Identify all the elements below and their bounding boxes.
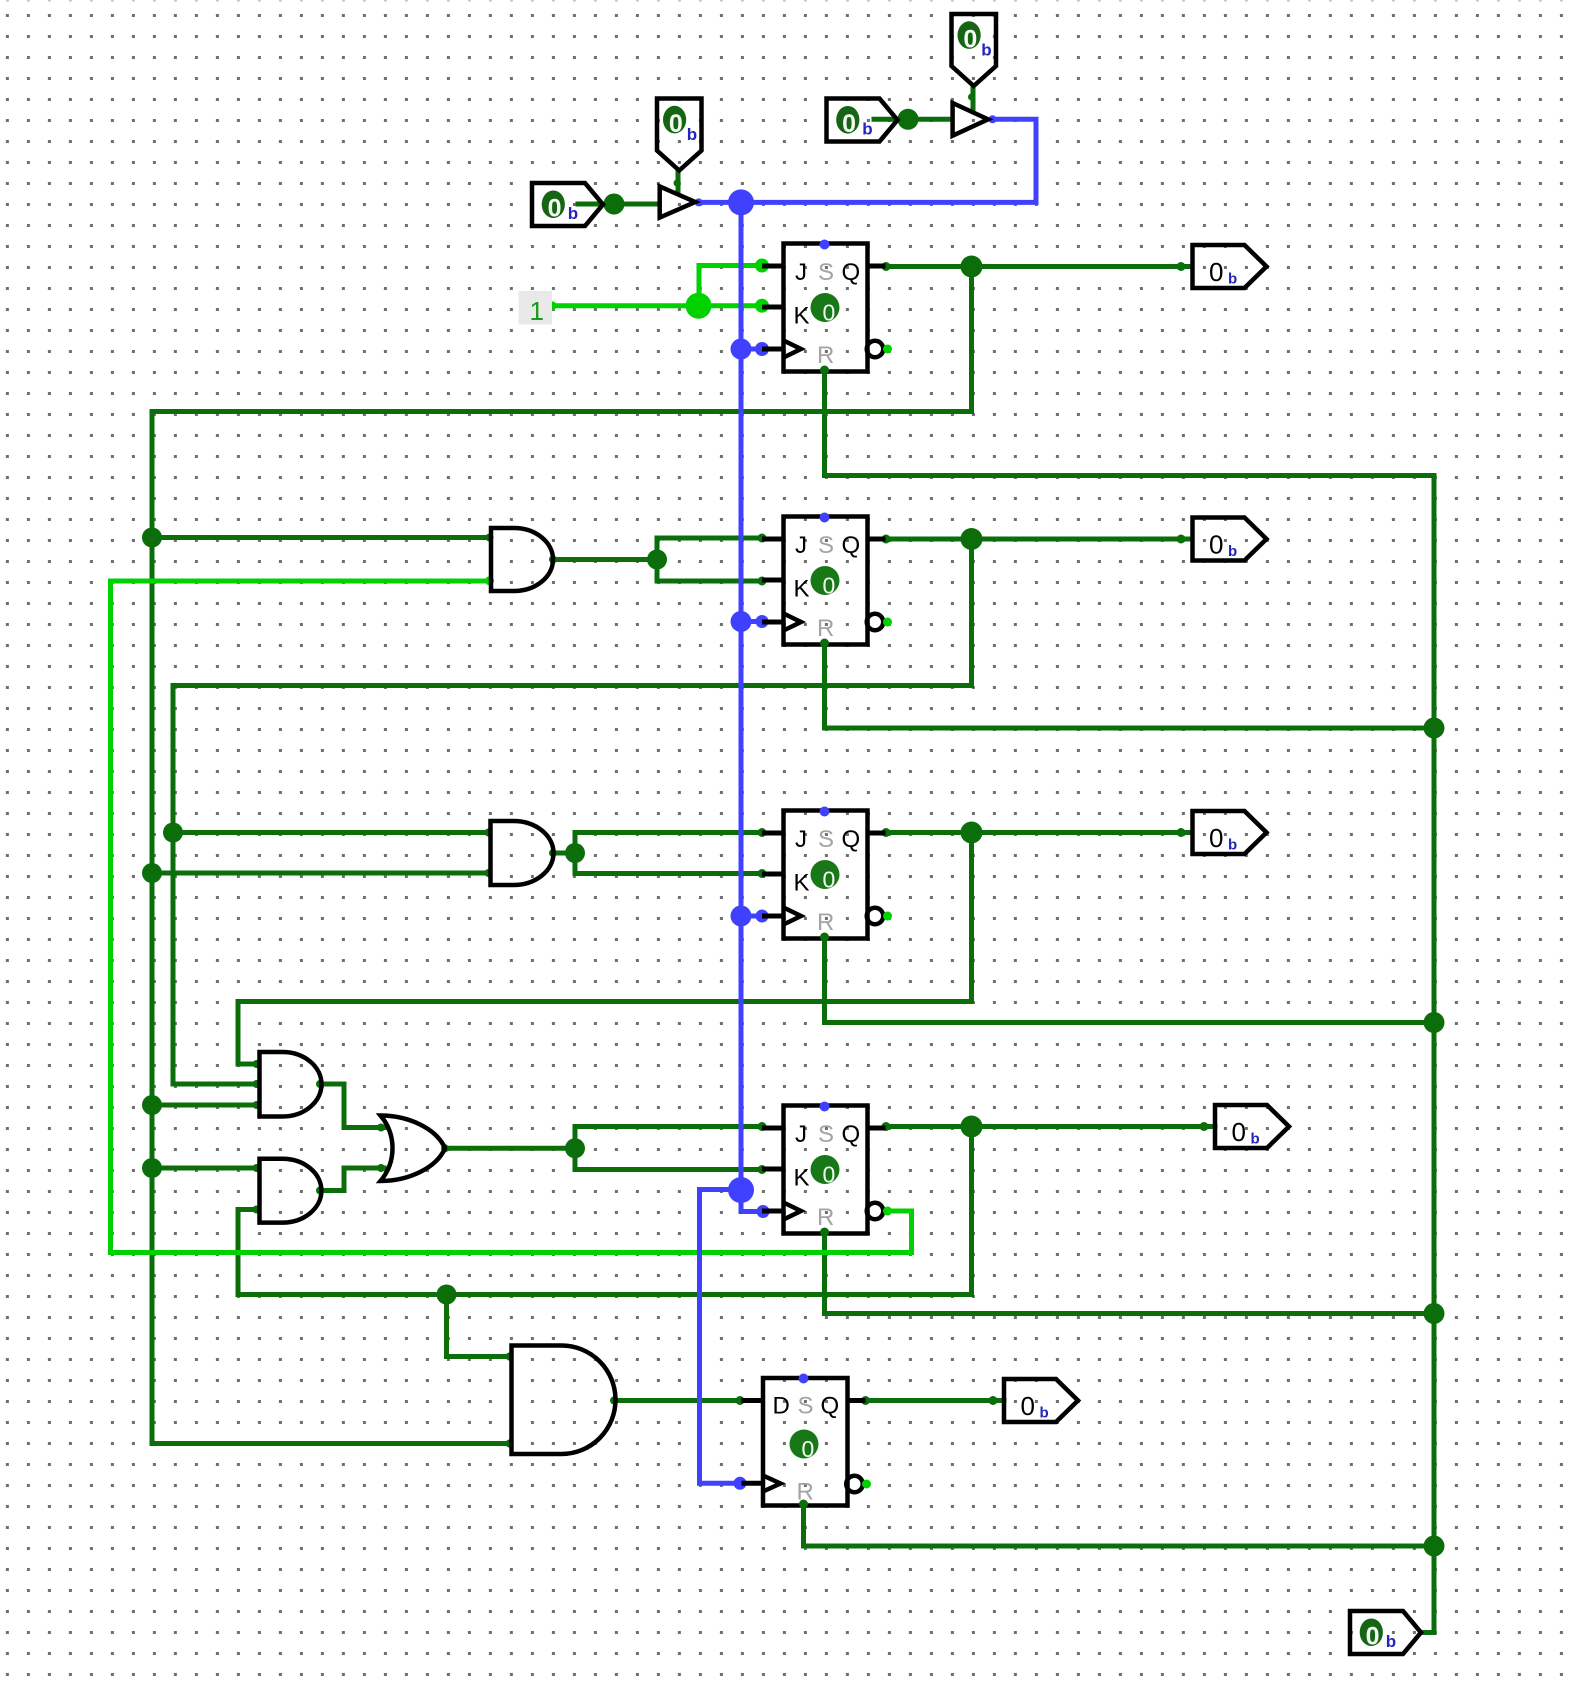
- node junction blue FF1 clock: [731, 339, 752, 360]
- node blue wire end FF2 clock: [756, 615, 769, 628]
- node AND3 input A port: [253, 1060, 261, 1068]
- control input pin I1c (0b) above buffer B1: [657, 99, 702, 171]
- wire blue stub to FF4 clock: [741, 1190, 763, 1212]
- wire FF4 Qbar(1) loop to AND1 bottom input: [111, 581, 912, 1253]
- wire Q2 feedback (down-left-down to AND3 middle input): [173, 539, 972, 1084]
- svg-text:S: S: [798, 1393, 814, 1420]
- wire blue B1 output to B2 output: [699, 119, 1036, 202]
- node DFF Q port: [861, 1396, 870, 1405]
- svg-text:b: b: [1386, 1632, 1396, 1651]
- node O2 input port: [1177, 535, 1186, 544]
- wire blue branch to DFF clock: [700, 1190, 742, 1484]
- flip-flop FF4 (JK): [762, 1102, 892, 1237]
- wire ctrl pin I1c to buffer B1 control: [676, 170, 681, 193]
- wire AND1 out to FF2 K: [657, 560, 762, 582]
- node AND4 output port: [316, 1187, 324, 1195]
- output pin O5 (0b): [1004, 1379, 1078, 1422]
- wire blue clock bus vertical: [739, 202, 744, 1190]
- svg-text:K: K: [794, 1165, 810, 1192]
- wire FF4 R to reset bus: [825, 1234, 1435, 1314]
- node junction input I1: [604, 194, 625, 215]
- svg-text:J: J: [795, 259, 807, 286]
- svg-text:0: 0: [1209, 823, 1223, 853]
- wire Q3 to output pin O3: [886, 830, 1192, 835]
- node O3 input port: [1177, 828, 1186, 837]
- wire AND2 out to FF3 K: [575, 853, 762, 874]
- and-gate AND4: [260, 1159, 322, 1223]
- node junction AND2 out: [565, 843, 585, 863]
- wire constant 1 branch to FF1 J: [699, 266, 762, 306]
- node wire end FF4 K: [758, 1165, 767, 1174]
- wire big AND output to DFF D input: [616, 1398, 740, 1403]
- node junction Q1: [961, 256, 983, 278]
- node OR1 input B port: [377, 1164, 385, 1172]
- output pin O4 (0b): [1215, 1105, 1289, 1148]
- svg-text:Q: Q: [842, 532, 861, 559]
- svg-text:Q: Q: [842, 1121, 861, 1148]
- node OR1 output port: [441, 1144, 449, 1152]
- node junction reset bus/FF2: [1424, 718, 1445, 739]
- svg-text:0: 0: [1232, 1117, 1246, 1147]
- flip-flop FF2 (JK): [762, 513, 892, 648]
- node AND3 input C port: [253, 1101, 261, 1109]
- wire DFF Q to output pin O5: [865, 1398, 1004, 1403]
- svg-text:K: K: [794, 576, 810, 603]
- and-gate AND1: [491, 528, 553, 591]
- wire AND2 output: [553, 851, 575, 856]
- svg-text:D: D: [773, 1393, 790, 1420]
- svg-text:0: 0: [1209, 257, 1223, 287]
- node O5 input port: [989, 1396, 998, 1405]
- svg-text:R: R: [817, 909, 834, 936]
- node junction reset bus/DFF: [1424, 1536, 1445, 1557]
- svg-text:0: 0: [1366, 1623, 1380, 1651]
- and-gate AND2: [491, 821, 554, 885]
- svg-text:b: b: [862, 120, 872, 139]
- node wire end constant 1: [548, 301, 557, 310]
- node junction blue top: [728, 189, 754, 215]
- svg-text:R: R: [817, 1204, 834, 1231]
- node B1 output port: [695, 198, 703, 206]
- svg-text:b: b: [1251, 1131, 1260, 1148]
- wire Q1 branch to AND2 bottom input: [152, 871, 489, 876]
- output pin O3 (0b): [1193, 811, 1267, 854]
- and-gate AND3 (3-input): [260, 1052, 322, 1117]
- wire Q4 branch to big AND top input: [447, 1295, 512, 1357]
- buffer B2 (controlled): [953, 103, 989, 136]
- node junction Q2: [961, 528, 983, 550]
- node junction input I2: [898, 109, 919, 130]
- svg-text:K: K: [794, 870, 810, 897]
- svg-text:b: b: [568, 204, 578, 223]
- output pin O1 (0b): [1193, 245, 1267, 288]
- node junction OR out: [565, 1138, 585, 1158]
- node FF4 Q port: [882, 1122, 891, 1131]
- node junction Q1/AND4: [142, 1158, 162, 1178]
- node O1 input port: [1177, 262, 1186, 271]
- node AND2 output port: [549, 849, 557, 857]
- svg-text:J: J: [795, 826, 807, 853]
- node O4 input port: [1200, 1122, 1209, 1131]
- wire blue stub to FF1 clock: [741, 347, 762, 352]
- svg-text:S: S: [818, 259, 834, 286]
- wire AND4 output to OR bottom input: [321, 1168, 384, 1191]
- node AND5 input B port: [506, 1440, 514, 1448]
- input pin I1 (0b): [532, 183, 603, 226]
- input pin I4 (0b) bottom right: [1350, 1611, 1421, 1654]
- wire Q4 feedback (down-left-up to AND4 bottom input): [238, 1127, 972, 1295]
- node wire end FF2 J: [758, 534, 767, 543]
- or-gate OR1: [381, 1116, 446, 1182]
- node AND2 input A port: [485, 829, 493, 837]
- wire blue stub to FF2 clock: [741, 619, 762, 624]
- node junction reset bus/FF4: [1424, 1303, 1445, 1324]
- svg-text:S: S: [818, 826, 834, 853]
- svg-text:J: J: [795, 532, 807, 559]
- node junction blue FF2 clock: [731, 611, 752, 632]
- svg-text:0: 0: [802, 1436, 815, 1462]
- svg-text:J: J: [795, 1121, 807, 1148]
- wire FF1 R to right-side reset bus down to input pin I4: [825, 372, 1435, 1633]
- wire Q2 to output pin O2: [886, 537, 1192, 542]
- wire Q2 branch to AND2 top input: [173, 830, 489, 835]
- node wire end FF4 J: [758, 1122, 767, 1131]
- node junction Q1/AND3: [142, 1095, 162, 1115]
- node B2 control stub dot: [968, 94, 975, 101]
- node AND5 input A port: [506, 1353, 514, 1361]
- svg-text:R: R: [817, 615, 834, 642]
- node blue wire end FF3 clock: [756, 910, 769, 923]
- wire FF3 R to reset bus: [825, 939, 1435, 1023]
- svg-text:b: b: [1228, 837, 1237, 854]
- svg-text:0: 0: [823, 867, 836, 893]
- node junction Q3: [961, 822, 983, 844]
- node junction Q1/AND2: [142, 863, 162, 883]
- node junction reset bus/FF3: [1424, 1012, 1445, 1033]
- flip-flop DFF (D): [742, 1374, 872, 1509]
- node wire end FF2 K: [758, 577, 767, 586]
- node junction blue FF3 clock: [731, 906, 752, 927]
- node junction Q1/AND1: [142, 528, 162, 548]
- node FF3 Q port: [882, 828, 891, 837]
- node junction Q2/AND2: [163, 823, 183, 843]
- wire Q1 branch to AND3 bottom input: [152, 1103, 258, 1108]
- wire Q1 to output pin O1: [886, 264, 1192, 269]
- node wire end FF3 K: [758, 869, 767, 878]
- wire AND1 out to FF2 J: [657, 538, 762, 560]
- wire AND1 output: [553, 557, 657, 562]
- svg-text:0: 0: [823, 1162, 836, 1188]
- control input pin I2c (0b) above buffer B2: [952, 14, 997, 86]
- node AND4 input A port: [253, 1164, 261, 1172]
- node OR1 input A port: [377, 1124, 385, 1132]
- svg-text:0: 0: [669, 110, 683, 138]
- svg-text:b: b: [1228, 271, 1237, 288]
- svg-text:R: R: [817, 342, 834, 369]
- svg-text:b: b: [1228, 543, 1237, 560]
- svg-text:K: K: [794, 303, 810, 330]
- constant 1 source: [519, 291, 553, 325]
- wire Q3 feedback (down-left-down to AND3 top input): [238, 833, 972, 1065]
- node AND5 output port: [610, 1397, 618, 1405]
- node FF1 Q port: [882, 262, 891, 271]
- svg-text:0: 0: [963, 26, 977, 54]
- svg-text:b: b: [1040, 1405, 1049, 1422]
- node B1 control stub dot: [674, 180, 681, 187]
- node blue wire end DFF clock: [734, 1477, 747, 1490]
- node blue wire end FF4 clock: [757, 1205, 770, 1218]
- wire input pin I2 to buffer B2: [874, 117, 952, 122]
- node wire end FF1 J: [755, 259, 769, 273]
- flip-flop FF3 (JK): [762, 807, 892, 942]
- node junction Q4: [961, 1116, 983, 1138]
- wire OR out to FF4 J: [575, 1127, 762, 1149]
- node junction blue FF4: [728, 1177, 754, 1203]
- wire ctrl pin I2c to buffer B2 control: [971, 87, 976, 111]
- svg-text:Q: Q: [821, 1393, 840, 1420]
- node junction Q4/bigAND: [437, 1285, 457, 1305]
- wire input pin I1 to buffer B1: [578, 202, 659, 207]
- svg-text:0: 0: [842, 110, 856, 138]
- svg-text:Q: Q: [842, 259, 861, 286]
- svg-text:0: 0: [823, 573, 836, 599]
- svg-text:b: b: [981, 41, 991, 60]
- buffer B1 (controlled): [660, 187, 696, 218]
- node AND3 output port: [316, 1080, 324, 1088]
- node FF2 Q port: [882, 535, 891, 544]
- wire OR out to FF4 K: [575, 1148, 762, 1169]
- svg-text:S: S: [818, 532, 834, 559]
- node wire end FF3 J: [758, 828, 767, 837]
- wire Q4 to output pin O4: [886, 1124, 1215, 1129]
- wire blue stub to FF3 clock: [741, 914, 762, 919]
- wire Q1 branch to AND4 top input: [152, 1166, 258, 1171]
- node junction constant 1: [686, 293, 712, 319]
- svg-text:1: 1: [530, 296, 544, 326]
- svg-text:0: 0: [1209, 530, 1223, 560]
- wire Q1 feedback bus (down-left-down to big AND bottom input): [152, 267, 972, 1444]
- node blue wire end FF1 clock: [755, 342, 769, 356]
- node junction AND1 out: [647, 550, 667, 570]
- wire FF2 R to reset bus: [825, 645, 1435, 729]
- node AND1 output port: [549, 556, 557, 564]
- node wire end FF1 K: [755, 299, 769, 313]
- svg-text:b: b: [687, 125, 697, 144]
- node AND3 input B port: [253, 1080, 261, 1088]
- svg-text:0: 0: [823, 300, 836, 326]
- svg-text:0: 0: [1021, 1391, 1035, 1421]
- wire AND3 output to OR top input: [321, 1084, 384, 1128]
- wire DFF R to reset bus: [804, 1506, 1435, 1547]
- wire Q1 branch to AND1 top input: [152, 535, 489, 540]
- svg-text:Q: Q: [842, 826, 861, 853]
- svg-text:0: 0: [548, 195, 562, 223]
- wire OR output: [446, 1146, 575, 1151]
- node AND1 input A port: [486, 534, 494, 542]
- input pin I2 (0b): [827, 99, 898, 142]
- node AND2 input B port: [485, 869, 493, 877]
- wire constant 1 to FF1 K: [552, 303, 762, 308]
- wire AND2 out to FF3 J: [575, 833, 762, 854]
- node wire end AND1 bottom input: [485, 576, 494, 585]
- svg-text:S: S: [818, 1121, 834, 1148]
- node B2 output port: [989, 115, 997, 123]
- flip-flop FF1 (JK): [762, 240, 892, 375]
- and-gate AND5 (big, to DFF): [512, 1346, 616, 1455]
- output pin O2 (0b): [1193, 518, 1267, 561]
- node AND4 input B port: [253, 1206, 261, 1214]
- node wire end DFF D input: [736, 1396, 745, 1405]
